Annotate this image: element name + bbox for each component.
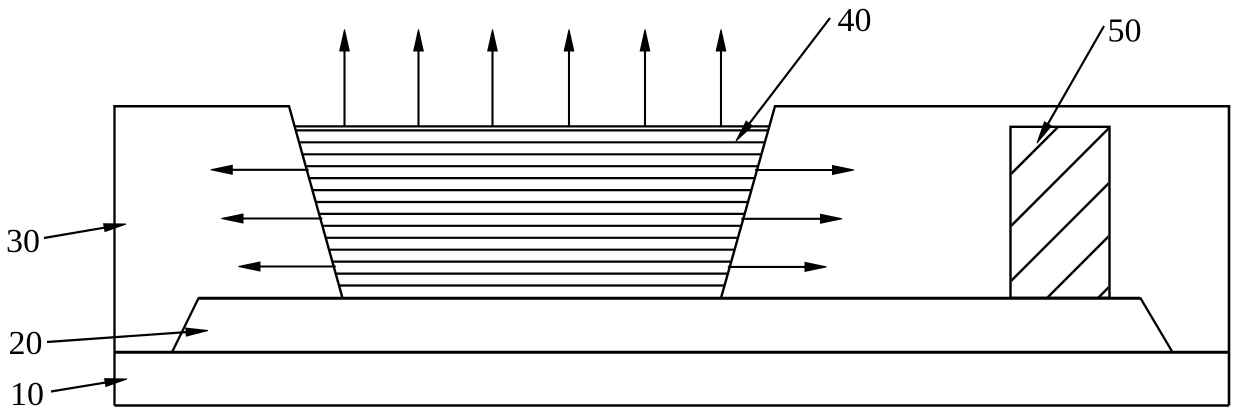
svg-text:40: 40 bbox=[838, 2, 872, 39]
svg-text:50: 50 bbox=[1108, 13, 1142, 50]
svg-text:20: 20 bbox=[9, 325, 43, 362]
svg-text:30: 30 bbox=[6, 223, 40, 260]
svg-text:10: 10 bbox=[10, 376, 44, 413]
